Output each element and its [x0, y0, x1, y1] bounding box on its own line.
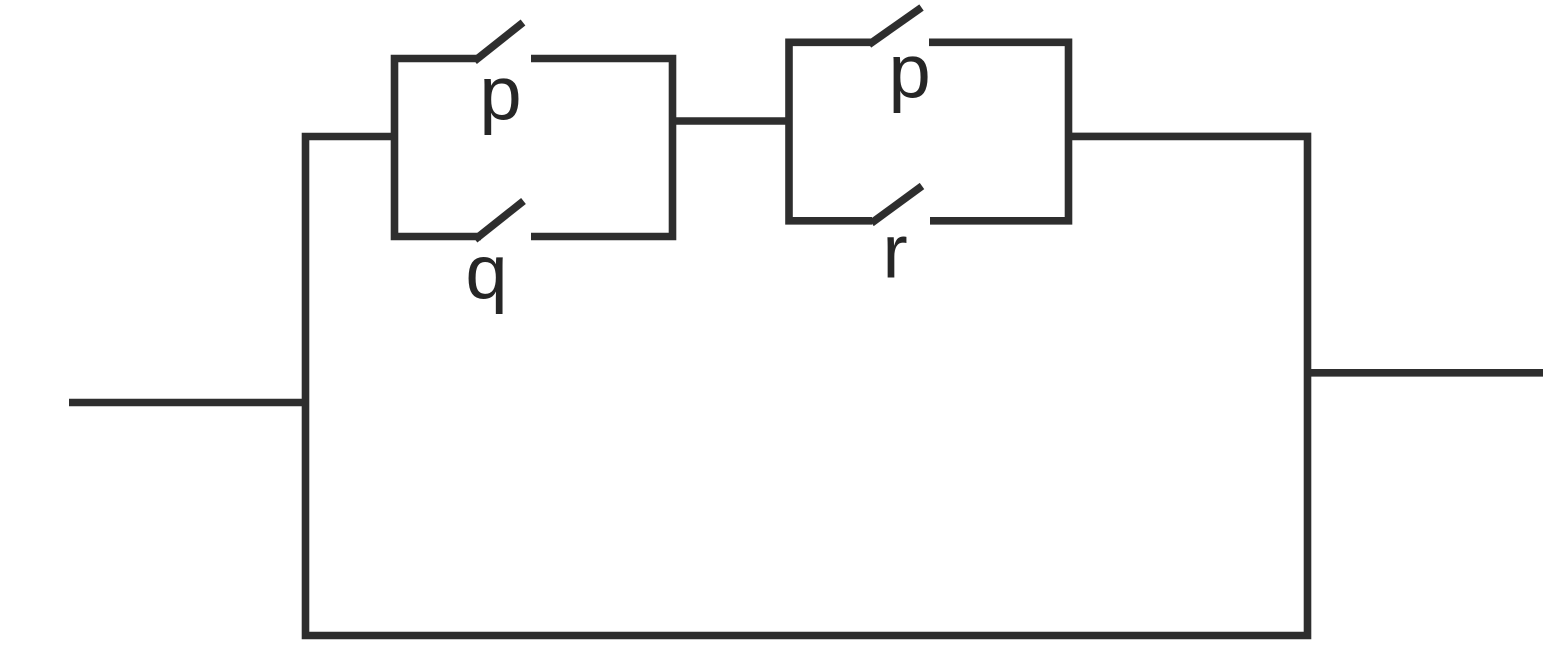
- svg-text:q: q: [465, 230, 507, 315]
- svg-text:p: p: [479, 51, 521, 136]
- svg-text:r: r: [882, 209, 907, 294]
- svg-text:p: p: [888, 29, 930, 114]
